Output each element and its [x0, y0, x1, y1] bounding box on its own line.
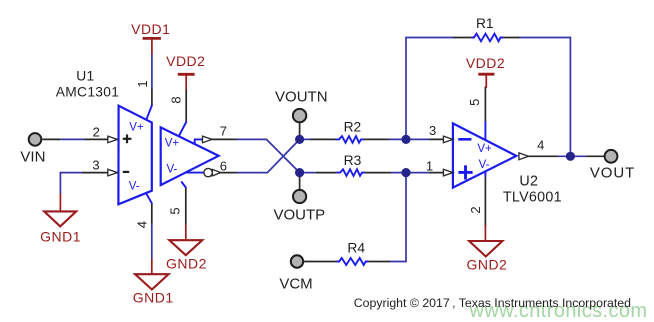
svg-text:7: 7 [220, 124, 227, 139]
svg-text:5: 5 [467, 99, 482, 106]
svg-text:4: 4 [134, 221, 149, 228]
svg-text:R3: R3 [344, 153, 362, 168]
svg-text:3: 3 [429, 123, 436, 138]
svg-text:GND2: GND2 [466, 257, 507, 273]
svg-text:R1: R1 [476, 16, 494, 31]
svg-text:U1: U1 [76, 68, 94, 83]
svg-text:VCM: VCM [279, 275, 312, 292]
svg-text:TLV6001: TLV6001 [503, 189, 562, 205]
svg-text:2: 2 [468, 206, 483, 213]
svg-text:VDD2: VDD2 [166, 53, 205, 69]
svg-text:V-: V- [129, 181, 140, 193]
svg-text:R4: R4 [347, 241, 365, 256]
svg-text:VDD2: VDD2 [466, 55, 505, 71]
svg-text:VDD1: VDD1 [131, 21, 170, 37]
svg-text:3: 3 [92, 158, 99, 173]
svg-text:V-: V- [479, 159, 490, 171]
svg-text:6: 6 [220, 158, 227, 173]
svg-text:4: 4 [537, 138, 544, 153]
svg-text:V+: V+ [477, 143, 492, 155]
svg-text:V-: V- [166, 164, 177, 176]
svg-text:U2: U2 [519, 174, 538, 190]
svg-text:Copyright © 2017 , Texas Instr: Copyright © 2017 , Texas Instruments Inc… [354, 296, 631, 310]
svg-text:8: 8 [169, 96, 184, 103]
svg-text:V+: V+ [129, 121, 144, 133]
svg-text:AMC1301: AMC1301 [56, 84, 119, 99]
svg-text:VIN: VIN [20, 148, 45, 165]
svg-text:GND2: GND2 [166, 256, 207, 272]
svg-text:GND1: GND1 [133, 290, 174, 306]
svg-text:VOUT: VOUT [590, 165, 635, 182]
svg-text:5: 5 [168, 207, 183, 214]
svg-text:V+: V+ [165, 138, 180, 150]
svg-text:1: 1 [135, 80, 150, 87]
svg-text:1: 1 [426, 158, 433, 173]
svg-text:VOUTP: VOUTP [273, 206, 325, 223]
svg-text:R2: R2 [344, 119, 362, 134]
svg-text:VOUTN: VOUTN [275, 88, 328, 105]
svg-text:GND1: GND1 [40, 229, 81, 245]
svg-text:2: 2 [93, 124, 100, 139]
